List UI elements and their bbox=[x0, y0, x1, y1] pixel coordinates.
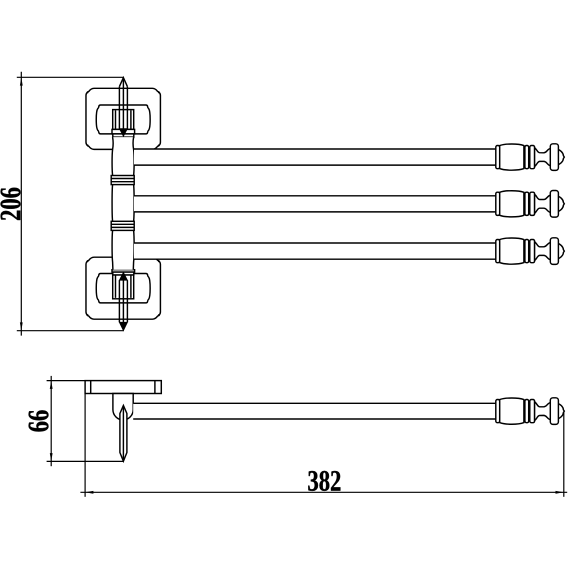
dimension 206: top arrowhead bbox=[20, 77, 23, 85]
dimension 66: top arrowhead bbox=[50, 381, 53, 389]
arm 1 finial barrel bbox=[500, 144, 524, 170]
front view top plate inner rosette bbox=[96, 105, 150, 134]
side view arm finial end cap dome bbox=[556, 403, 564, 419]
arm 1 finial collar ring 2 bbox=[525, 146, 529, 169]
side view arm finial neck bbox=[535, 402, 552, 421]
side view arm finial collar ring 1 bbox=[496, 400, 500, 423]
arm 2 finial neck bbox=[535, 194, 552, 213]
side view mounting screw bbox=[120, 405, 127, 461]
arm 1 finial neck bbox=[535, 148, 552, 167]
side view arm finial knob bbox=[550, 398, 558, 425]
arm 3 finial knob bbox=[550, 238, 558, 265]
front view top sleeve flange band 1 bbox=[112, 129, 135, 134]
arm 2 finial collar ring 3 bbox=[530, 192, 535, 215]
dimension 206: top extension line bbox=[17, 76, 124, 78]
front view top wall plate corner step details bbox=[87, 91, 89, 93]
side view arm finial collar ring 2 bbox=[525, 400, 529, 423]
bottom mounting screw point (up) bbox=[119, 272, 127, 280]
front view top post sleeve bbox=[113, 110, 134, 130]
dimension 382: label text bbox=[308, 471, 340, 491]
arm 2 finial end cap dome bbox=[556, 196, 564, 212]
arm 3 finial collar ring 2 bbox=[525, 240, 529, 263]
bottom mounting screw shaft bbox=[119, 274, 127, 329]
arm 3 finial end cap dome bbox=[556, 243, 564, 259]
side view towel bar arm bbox=[133, 403, 496, 419]
arm 2 finial barrel bbox=[500, 191, 524, 217]
arm 1 finial collar ring 1 bbox=[496, 146, 500, 169]
arm 1 finial knob bbox=[550, 144, 558, 171]
towel bar arm 1 bbox=[134, 149, 497, 165]
side view wall plate bevel lines bbox=[91, 381, 155, 394]
bottom mounting screw point (down) bbox=[119, 322, 127, 330]
dimension 382: left arrowhead bbox=[85, 491, 93, 494]
dimension 66: dimension line bbox=[50, 376, 52, 466]
front view top post sleeve inner lines bbox=[116, 110, 131, 129]
post ring collar group 2 bbox=[111, 221, 134, 230]
towel bar arm 2 bbox=[134, 196, 497, 212]
side view wall plate bbox=[85, 381, 161, 394]
dimension 206: label text bbox=[1, 188, 21, 220]
top mounting screw point (up) bbox=[119, 78, 127, 87]
arm 1 finial collar ring 3 bbox=[530, 146, 535, 169]
front view bottom sleeve flange band 2 bbox=[113, 272, 134, 275]
arm 3 finial barrel bbox=[500, 238, 524, 264]
front view bottom wall plate outer outline bbox=[86, 257, 160, 319]
arm 3 finial neck bbox=[535, 242, 552, 261]
dimension 206: bottom arrowhead bbox=[20, 322, 23, 330]
side view arm finial collar ring 3 bbox=[530, 400, 535, 423]
side view arm finial barrel bbox=[500, 398, 524, 424]
arm 2 finial collar ring 1 bbox=[496, 192, 500, 215]
post ring collar group 1 bbox=[111, 176, 134, 185]
dimension 206: dimension line bbox=[20, 72, 22, 336]
arm 2 finial collar ring 2 bbox=[525, 192, 529, 215]
front view bottom sleeve flange band 1 bbox=[112, 270, 135, 272]
front view bottom post sleeve bbox=[113, 275, 134, 299]
dimension 206: bottom extension line bbox=[17, 330, 124, 332]
dimension 382: right extension line bbox=[563, 411, 565, 497]
central post column left edge bbox=[112, 137, 113, 270]
dimension 382: left extension line (wall line) bbox=[84, 381, 86, 497]
dimension 66: bottom arrowhead bbox=[50, 453, 53, 461]
dimension 66: top extension line bbox=[47, 380, 86, 382]
dimension 66: bottom extension line bbox=[47, 460, 124, 462]
dimension 66: label text bbox=[29, 410, 49, 431]
towel bar arm 3 bbox=[134, 243, 497, 259]
arm 2 finial knob bbox=[550, 191, 558, 218]
dimension 382: dimension line bbox=[80, 491, 567, 493]
arm 1 finial end cap dome bbox=[556, 149, 564, 165]
dimension 382: right arrowhead bbox=[556, 491, 564, 494]
top mounting screw shaft bbox=[119, 80, 127, 136]
arm 3 finial collar ring 1 bbox=[496, 240, 500, 263]
front view bottom plate inner rosette bbox=[96, 274, 150, 303]
front view top sleeve flange band 2 bbox=[113, 134, 134, 137]
top mounting screw point (down) bbox=[119, 129, 127, 137]
arm 3 finial collar ring 3 bbox=[530, 240, 535, 263]
central post column bbox=[113, 137, 134, 270]
central post column right edge bbox=[133, 137, 134, 270]
front view top wall plate outer outline bbox=[86, 88, 160, 149]
side view pivot housing bbox=[113, 394, 133, 420]
front view bottom wall plate corner step details bbox=[87, 260, 89, 262]
front view bottom post sleeve inner lines bbox=[116, 275, 131, 298]
